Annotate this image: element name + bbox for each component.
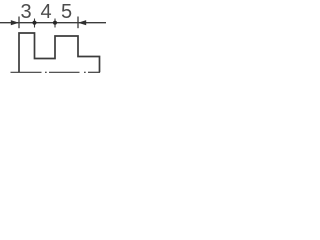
baseline dash-dot centerline	[11, 71, 101, 73]
dot at second division	[53, 21, 57, 25]
svg-text:5: 5	[61, 1, 72, 23]
tick at first division	[34, 19, 36, 28]
right extension tick	[77, 17, 79, 29]
dimension line	[0, 22, 106, 24]
dot at first division	[32, 21, 36, 25]
left extension tick	[18, 17, 20, 29]
left arrowhead	[11, 20, 19, 25]
stepped profile outline	[19, 33, 100, 72]
tick at second division	[54, 19, 56, 28]
right arrowhead	[78, 20, 86, 25]
svg-text:3: 3	[20, 1, 31, 23]
svg-text:4: 4	[40, 1, 51, 23]
